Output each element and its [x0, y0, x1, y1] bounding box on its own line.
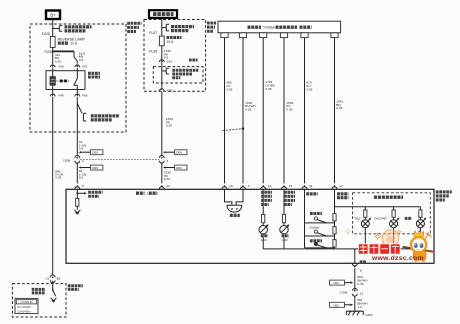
watermark red char xia — [391, 244, 401, 254]
label phone lamp — [405, 217, 412, 220]
svg-text:0.35: 0.35 — [55, 176, 61, 180]
svg-text:C008: C008 — [63, 158, 71, 162]
wire B+ feed down — [52, 19, 54, 36]
svg-text:12: 12 — [339, 184, 343, 188]
svg-text:OnStar: OnStar — [309, 226, 319, 230]
label ground (jiedi) — [360, 260, 367, 263]
component box vehicle comm interface (radio reference box) — [218, 21, 341, 33]
wire S20 down to C008 — [161, 92, 163, 157]
wire label 342 BN 0.35 — [55, 53, 61, 64]
lamp L2 bulb ONSTAR — [390, 218, 400, 249]
reference box U62 upper — [330, 280, 354, 285]
label reverse lamp signal voltage — [88, 192, 102, 196]
wire label 84 L-GN 0.5 — [79, 169, 86, 180]
wire radio 5 down — [304, 38, 306, 184]
wire right branch to F07 — [74, 51, 77, 63]
wire C008 left to pin 5 — [76, 163, 78, 184]
watermark star sparkle 2 — [381, 242, 385, 246]
wire internal ground bus — [263, 248, 420, 250]
pin 61 top edge — [302, 184, 313, 189]
svg-text:FU28: FU28 — [42, 32, 50, 36]
wire radio 6 down — [334, 38, 336, 184]
svg-text:16: 16 — [289, 184, 293, 188]
wire speaker feed right — [236, 189, 243, 205]
connector lug pin 1 — [221, 33, 228, 38]
svg-text:10 A: 10 A — [167, 40, 174, 44]
pin 12 backlight top edge — [332, 184, 343, 189]
label module name right of BCM — [68, 286, 83, 290]
switch SW3 phone — [314, 242, 326, 248]
connector C008 dashed harness line — [80, 158, 159, 160]
lamp L1 911 branch — [364, 207, 367, 220]
svg-text:LED: LED — [261, 238, 268, 242]
switch SW2 onstar — [314, 230, 326, 236]
connector F07 — [75, 65, 80, 67]
svg-text:0.35: 0.35 — [245, 108, 251, 112]
resistor internal pulldown — [76, 198, 79, 209]
wire F08 to relay — [52, 68, 54, 71]
svg-text:0.35: 0.35 — [55, 60, 61, 64]
svg-text:F08: F08 — [58, 64, 64, 68]
resistor keypad R3 — [333, 240, 336, 247]
svg-text:D06: D06 — [176, 166, 182, 170]
wire S21 down through box — [161, 63, 163, 88]
svg-text:F46: F46 — [58, 94, 64, 98]
svg-text:5: 5 — [82, 184, 84, 188]
pin 5 top edge — [75, 184, 84, 189]
resistor keypad R2 — [333, 227, 336, 234]
connector F08 — [50, 65, 55, 67]
svg-text:0.5: 0.5 — [79, 147, 84, 151]
wire label 1611 BN 0.5 — [79, 51, 86, 62]
table CONN ID — [15, 298, 38, 313]
connector C308 pin 12 — [352, 288, 363, 296]
resistor green LED — [262, 214, 265, 225]
resistor keypad R1 — [333, 214, 336, 221]
switch SW1 emergency — [314, 217, 326, 223]
svg-text:10 A: 10 A — [70, 41, 77, 45]
wire label 1793 GY/BK 0.35 — [265, 80, 275, 91]
svg-text:G402: G402 — [365, 313, 373, 317]
wire fuse to S21 — [161, 46, 163, 63]
label reference text (power distribution schematic) — [65, 27, 92, 31]
connector lug pin 3 — [260, 33, 267, 38]
LED D1 green — [259, 224, 269, 249]
svg-text:S21: S21 — [167, 59, 173, 63]
watermark star sparkle 1 — [374, 233, 380, 239]
svg-text:F66: F66 — [82, 94, 88, 98]
connector F66 — [75, 94, 80, 96]
svg-text:10: 10 — [229, 184, 233, 188]
label ignition 1 voltage — [136, 192, 157, 196]
svg-text:C308: C308 — [340, 291, 348, 295]
wire C008 right to pin 12 — [161, 163, 163, 184]
svg-text:0.35: 0.35 — [357, 282, 363, 286]
relay coil — [50, 71, 55, 90]
svg-text:B+: B+ — [50, 13, 56, 18]
svg-text:FU30: FU30 — [45, 50, 53, 54]
svg-text:2: 2 — [248, 184, 250, 188]
wire run/start feed down — [161, 18, 163, 36]
splice S21 — [159, 60, 164, 62]
svg-text:U62: U62 — [333, 281, 339, 285]
svg-text:0.5: 0.5 — [79, 176, 84, 180]
label keypad backlighting title — [374, 195, 403, 198]
label (phone) — [310, 239, 322, 242]
ground internal chevron — [74, 210, 80, 214]
wire label 850 BK/WH 0.35 — [357, 275, 367, 286]
label BCM internal control text — [32, 289, 46, 293]
pin 2 top edge — [240, 184, 249, 189]
node branch to reference bracket — [53, 26, 63, 32]
label fuel pump relay — [189, 59, 198, 62]
svg-text:0.35: 0.35 — [265, 87, 271, 91]
relay switch contact — [74, 71, 78, 90]
wire backlight vertical bus — [334, 189, 336, 249]
svg-text:0.5: 0.5 — [79, 58, 84, 62]
wire backlight feed to lamp bus — [335, 206, 421, 208]
dashed box underhood fuse block — [30, 24, 126, 132]
lamp L1 bulb 911 — [361, 218, 371, 249]
svg-text:"911": "911" — [354, 217, 361, 221]
svg-text:C2: C2 — [45, 277, 49, 281]
ground chevron BCM — [51, 298, 57, 302]
label red LED — [282, 236, 289, 242]
svg-text:12: 12 — [166, 184, 170, 188]
label REVERSE LAMP 10 A — [58, 37, 86, 45]
svg-text:0.35: 0.35 — [226, 87, 232, 91]
svg-text:12: 12 — [360, 291, 364, 295]
svg-text:2: 2 — [82, 159, 84, 163]
svg-text:LED: LED — [282, 238, 289, 242]
reference box D06 lower left — [79, 165, 103, 170]
lamp L3 bulb phone — [416, 218, 426, 249]
svg-text:1: 1 — [146, 192, 148, 196]
svg-text:S20: S20 — [167, 89, 173, 93]
connector C008 left pin 2 — [75, 155, 84, 163]
relay actuation dashes and terminals — [57, 80, 71, 83]
twisted pair dash mark — [223, 127, 245, 130]
label fuse block name — [127, 23, 141, 31]
wire fuse to junction — [52, 48, 54, 65]
pin 16 top edge — [281, 184, 292, 189]
wire radio 1 down — [224, 38, 226, 184]
watermark red char yi — [380, 244, 390, 254]
watermark red char wei — [358, 244, 368, 254]
dashed box BCM body control module — [12, 284, 66, 317]
switch row 2 wire — [305, 235, 335, 237]
reference box D06 lower right — [163, 165, 187, 170]
label red LED status text — [284, 192, 295, 204]
wire relay to F66 — [76, 90, 78, 94]
connector F46 — [50, 94, 55, 96]
label green LED status text — [261, 192, 272, 204]
svg-text:14: 14 — [268, 184, 272, 188]
wire label 441 D-GN 0.35 long wire — [55, 169, 63, 179]
wire into BCM — [52, 281, 54, 290]
wire speaker feed left — [225, 189, 232, 205]
svg-text:www.dzsc.com: www.dzsc.com — [371, 255, 424, 262]
wire LED red branch — [283, 189, 285, 214]
switch row 1 wire — [305, 222, 335, 224]
label ONS module 10 A — [167, 38, 182, 45]
label module name right side — [436, 192, 452, 200]
connector lug pin 4 — [280, 33, 287, 38]
svg-text:0.35: 0.35 — [286, 108, 292, 112]
power symbol RUN/START — [149, 10, 177, 18]
connector lug pin 6 — [331, 33, 338, 38]
wire radio 3 down — [262, 38, 264, 184]
ground G402 symbol — [346, 311, 363, 315]
svg-text:U62: U62 — [333, 303, 339, 307]
dashed box keypad backlighting — [353, 193, 431, 234]
wire C308 to ground point — [354, 296, 356, 311]
svg-text:"OnStar: "OnStar — [263, 26, 276, 30]
svg-text:D06: D06 — [92, 151, 98, 155]
wire F07 to relay — [76, 68, 78, 71]
pin 12 top edge — [159, 184, 170, 189]
label keypad backlight voltage — [337, 194, 348, 198]
svg-text:D06: D06 — [92, 166, 98, 170]
watermark red char ku — [369, 244, 379, 254]
connector lug pin 5 — [301, 33, 308, 38]
junction bar splice — [52, 50, 74, 52]
reference box D06 upper right — [163, 150, 187, 155]
wire label 465 GY 0.35 — [226, 81, 232, 92]
wire LED green branch — [262, 189, 264, 214]
watermark mascot pen stick — [403, 247, 436, 253]
watermark mascot body — [413, 251, 426, 262]
svg-text:3: 3 — [167, 159, 169, 163]
wire label 1036 BU/WH 0.35 — [245, 101, 255, 112]
connector C008 right pin 3 — [159, 155, 168, 163]
svg-text:8: 8 — [360, 269, 362, 273]
wire F46 long run down left — [52, 97, 54, 275]
wire label 1941 BN 0.35 — [336, 99, 343, 110]
svg-text:61: 61 — [309, 184, 313, 188]
wire ground run to C308 — [354, 268, 356, 289]
svg-text:ONSTAR: ONSTAR — [374, 217, 387, 221]
label reverse lamp relay name — [88, 73, 100, 77]
label speaker — [230, 214, 240, 217]
svg-text:0.35: 0.35 — [166, 124, 172, 128]
svg-text:0.35: 0.35 — [164, 177, 170, 181]
svg-text:F07: F07 — [82, 64, 88, 68]
switch row 3 wire — [305, 247, 335, 249]
label (emergency) — [310, 212, 322, 215]
resistor red LED — [282, 214, 285, 225]
wire F66 down — [76, 97, 78, 157]
svg-text:0.35: 0.35 — [336, 106, 342, 110]
wire ground tap down — [354, 249, 356, 263]
LED D2 red — [280, 224, 290, 249]
wire label 24 L-GN 0.5 — [79, 140, 86, 151]
wire label 1539 PK 0.35 below — [164, 171, 171, 182]
svg-text:FU17: FU17 — [149, 31, 157, 35]
connector C2 B2 inline — [50, 275, 55, 283]
wire label 1556 PU 0.35 — [286, 101, 293, 112]
watermark star sparkle 4 faint — [345, 229, 351, 235]
component box U1 OnStar keypad-display module — [66, 189, 434, 263]
wire label 1539 PK 0.5 — [164, 49, 171, 60]
wire radio 2 down — [242, 38, 244, 184]
fuse FU28 REVERSE LAMP 10A — [50, 36, 55, 47]
label reference text (power distribution) — [171, 27, 194, 31]
dashed box run/start fuse block — [144, 20, 206, 92]
watermark stamp circle — [382, 230, 399, 247]
wire pin5 internal — [76, 189, 78, 198]
reference box U62 lower — [330, 302, 354, 307]
label reference text (backup lamps schematic) — [91, 116, 119, 120]
node branch to reference bracket right — [77, 103, 86, 121]
relay K reverse lamp relay box — [46, 71, 85, 90]
power symbol B+ — [46, 11, 60, 20]
node branch to reference bracket — [162, 24, 169, 31]
pin 14 top edge — [261, 184, 272, 189]
lamp L3 phone branch — [419, 207, 422, 220]
label reference text (fuel pump) — [172, 70, 198, 78]
watermark mascot head — [411, 230, 432, 252]
label green LED — [261, 236, 268, 242]
svg-text:1.0: 1.0 — [357, 305, 362, 309]
label radio box title — [248, 26, 312, 30]
wire keypad signal common vertical — [304, 189, 306, 248]
pin 10 top edge — [222, 184, 233, 189]
wire relay to F46 — [52, 90, 54, 94]
svg-text:0.35: 0.35 — [306, 87, 312, 91]
svg-text:D06: D06 — [176, 151, 182, 155]
svg-text:B2: B2 — [57, 277, 61, 281]
switch BCM output driver — [52, 289, 56, 296]
label IP fuse block name — [207, 23, 216, 31]
watermark star sparkle 3 — [396, 229, 401, 234]
speaker SP1 — [227, 205, 242, 212]
node junction arrow to label — [76, 192, 87, 194]
splice S20 — [159, 88, 164, 91]
wire label 1539 PK 0.35 — [166, 117, 173, 128]
wire label 879 PU 0.35 — [306, 81, 312, 92]
svg-text:C2=24 BN: C2=24 BN — [17, 309, 30, 313]
watermark stamp inner blob — [386, 236, 394, 243]
reference box D06 upper left — [79, 150, 103, 155]
dashed box fuel pump relay — [153, 67, 203, 83]
lamp L2 onstar branch — [392, 207, 395, 220]
label keypad signal — [306, 192, 317, 195]
node branch to reference bracket inside — [162, 68, 169, 74]
connector lug pin 2 — [239, 33, 246, 38]
fuse FU17 10A — [159, 36, 164, 46]
svg-text:CONN ID: CONN ID — [20, 300, 32, 304]
svg-text:FU18: FU18 — [149, 49, 157, 53]
wire label 851 BK/WH 1.0 — [357, 298, 367, 309]
wire radio 4 down — [283, 38, 285, 184]
pin 8 bottom edge — [352, 263, 362, 272]
